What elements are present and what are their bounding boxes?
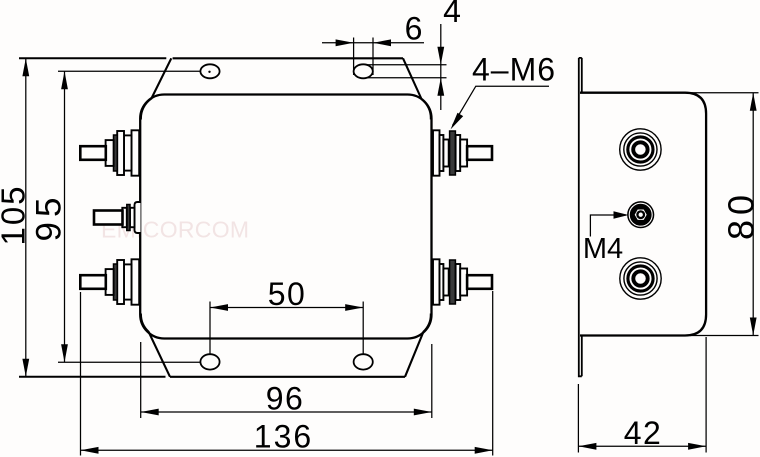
arrow dim4 top outside [437,47,444,65]
terminal T1 top-left [80,130,139,175]
dim 4 extension top [366,64,447,66]
dim 95 extension top [58,70,200,72]
arrow dim96 left [141,409,159,416]
M4 grounding stud (side view) [627,201,654,228]
arrow dim80 bottom [750,318,757,336]
dim 42 extension left [577,384,579,453]
M4 leader line [590,215,626,237]
arrow dim50 left [210,304,228,311]
arrow dim95 top [61,71,68,89]
dim 4 line [440,24,442,110]
arrow M4 leader [614,211,629,219]
svg-text:4–M6: 4–M6 [472,52,556,88]
dim 96 line [141,411,432,413]
arrow leader 4-M6 [451,113,464,130]
screw head top (side view) [620,129,661,170]
bottom mounting flange [141,314,431,377]
dim 105 extension top [19,57,166,59]
dim 50 extension left [209,302,211,355]
terminal T5 bottom-right [433,259,492,304]
terminal T2 middle-left (M4 stud) [94,202,141,233]
arrow dim6 right outside [373,39,391,46]
bottom flange slot hole left [200,354,219,369]
dim 6 extension right [372,38,374,76]
dim 4 extension bottom [366,77,447,79]
svg-text:4: 4 [443,0,461,29]
terminal T4 top-right [433,130,492,175]
svg-text:95: 95 [30,193,69,242]
top-left hole center dot [208,71,210,73]
arrow dim6 left outside [336,39,354,46]
dim 136 line [81,449,493,451]
leader 4-M6 [453,86,550,125]
dim 136 extension right [492,291,494,456]
arrow dim105 top [22,58,29,76]
side body outline [580,93,706,336]
arrow dim105 bottom [22,359,29,377]
svg-text:105: 105 [0,184,32,245]
svg-text:80: 80 [721,190,760,240]
dim 96 extension right [431,344,433,418]
svg-text:42: 42 [624,415,663,451]
dim 42 line [578,445,706,447]
top flange slot hole left [200,64,219,78]
dim 96 extension left [140,342,142,418]
dim 6 line [322,42,424,44]
arrow dim95 bottom [61,344,68,362]
arrow dim80 top [750,93,757,111]
dim 105 extension bottom [19,376,166,378]
side flange plate [579,58,582,376]
svg-text:96: 96 [266,381,305,417]
dim 50 line [210,307,363,309]
top flange slot hole right [354,64,373,78]
arrow dim42 left [578,443,596,450]
arrow dim4 bottom outside [437,78,444,96]
arrow dim136 left [81,447,99,454]
arrow dim96 right [414,409,432,416]
dim 136 extension left [80,292,82,456]
dim 80 line [752,93,754,336]
bottom flange slot hole right [354,354,373,369]
filter body outline (front view) [140,95,431,339]
dim 80 extension bottom [690,335,759,337]
arrow dim50 right [345,304,363,311]
terminal T3 bottom-left [80,259,139,304]
dim 50 extension right [362,302,364,355]
dim 105 line [25,58,27,377]
screw head bottom (side view) [620,258,661,299]
top mounting flange [141,58,431,119]
svg-text:136: 136 [254,419,313,455]
svg-text:6: 6 [405,11,423,47]
dim 95 extension bottom [58,361,200,363]
dim 80 extension top [690,92,759,94]
svg-text:M4: M4 [583,233,623,265]
arrow dim136 right [475,447,493,454]
svg-text:50: 50 [268,276,307,312]
dim 95 line [64,71,66,362]
dim 6 extension left [353,38,355,76]
arrow dim42 right [688,443,706,450]
dim 42 extension right [705,337,707,453]
